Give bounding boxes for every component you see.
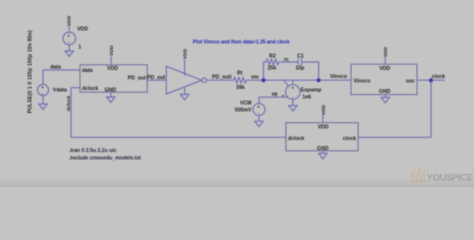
svg-text:data: data bbox=[50, 65, 61, 71]
svg-text:GND: GND bbox=[317, 146, 329, 152]
wire U3 GND stub bbox=[322, 151, 324, 154]
ground bbox=[39, 104, 47, 109]
op-amp ground stub bbox=[292, 99, 294, 105]
svg-text:1e6: 1e6 bbox=[302, 94, 311, 100]
wire U1 GND stub bbox=[110, 92, 112, 97]
svg-text:Vinvco: Vinvco bbox=[330, 74, 347, 80]
svg-text:VDD: VDD bbox=[318, 124, 329, 130]
bottom shade bbox=[0, 180, 474, 184]
wire VDD stub above V1 bbox=[68, 27, 70, 33]
svg-text:VDD: VDD bbox=[321, 105, 327, 116]
svg-text:VDD: VDD bbox=[107, 66, 118, 72]
svg-text:.include cmosedu_models.txt: .include cmosedu_models.txt bbox=[69, 156, 141, 162]
svg-text:PD_outi: PD_outi bbox=[212, 75, 232, 81]
svg-text:GND: GND bbox=[379, 89, 391, 95]
svg-text:Vdata: Vdata bbox=[53, 87, 67, 93]
op-amp output stub bbox=[292, 80, 294, 85]
svg-text:Vinvco: Vinvco bbox=[354, 78, 371, 84]
subcircuit U1 phase detector box bbox=[80, 65, 147, 92]
svg-text:Plot Vinvco and then data+1.35: Plot Vinvco and then data+1.35 and clock bbox=[193, 39, 290, 45]
watermark YouSpice icon bbox=[411, 169, 425, 182]
svg-text:VDD: VDD bbox=[182, 48, 188, 59]
svg-text:500mV: 500mV bbox=[235, 108, 252, 114]
capacitor C1 bbox=[298, 58, 301, 65]
wire Vdata to ground bbox=[42, 96, 44, 104]
wire PD_outi to resistor bbox=[207, 79, 234, 81]
subcircuit U2 VCO box bbox=[351, 64, 417, 94]
wire vm bbox=[246, 79, 351, 81]
wire VDD stub above U3 bbox=[322, 116, 324, 123]
wire inverter GND stub bbox=[184, 87, 186, 95]
svg-text:Eopamp: Eopamp bbox=[301, 87, 321, 93]
wire U2 GND stub bbox=[384, 95, 386, 98]
ground bbox=[319, 153, 327, 158]
svg-text:1: 1 bbox=[78, 45, 81, 51]
node clock junction bbox=[429, 78, 433, 82]
svg-text:vp: vp bbox=[271, 91, 277, 97]
svg-text:GND: GND bbox=[105, 87, 117, 93]
svg-text:VDD: VDD bbox=[383, 47, 389, 58]
ground bbox=[65, 51, 73, 56]
wire C1 to output bbox=[302, 62, 319, 80]
node vm junction bbox=[262, 78, 266, 82]
wire VCM to ground bbox=[258, 116, 260, 122]
svg-text:PULSE(0 1 0 100p 100p 10n 80n): PULSE(0 1 0 100p 100p 10n 80n) bbox=[27, 30, 33, 113]
wire V1 to ground bbox=[68, 45, 70, 51]
voltage source Vdata bbox=[37, 84, 48, 95]
svg-text:R2: R2 bbox=[269, 53, 276, 59]
inverter X1 bbox=[166, 66, 201, 94]
svg-text:clock: clock bbox=[343, 136, 356, 142]
wire data net bbox=[43, 70, 80, 85]
svg-text:C1: C1 bbox=[297, 53, 304, 59]
svg-text:.tran 0 2.5u 2.2u uic: .tran 0 2.5u 2.2u uic bbox=[69, 148, 117, 154]
wire vm feedback riser bbox=[264, 62, 267, 80]
wire VDD stub above U1 bbox=[110, 57, 112, 65]
ground bbox=[255, 121, 263, 126]
svg-text:10p: 10p bbox=[295, 65, 304, 71]
wire VDD stub above U2 bbox=[384, 58, 386, 64]
svg-text:PD_out: PD_out bbox=[147, 75, 165, 81]
svg-text:clock: clock bbox=[432, 74, 445, 80]
svg-text:PD_out: PD_out bbox=[128, 76, 146, 82]
ground bbox=[381, 97, 389, 102]
svg-text:25k: 25k bbox=[268, 65, 277, 71]
svg-text:dclock: dclock bbox=[82, 86, 99, 92]
svg-text:dclock: dclock bbox=[288, 136, 305, 142]
node Vinvco junction bbox=[317, 78, 321, 82]
voltage source VCM bbox=[253, 104, 265, 116]
svg-text:osc: osc bbox=[406, 78, 415, 84]
svg-text:VCM: VCM bbox=[240, 101, 252, 107]
inverter output bubble bbox=[202, 78, 207, 83]
resistor R2 bbox=[266, 59, 279, 65]
svg-text:vm: vm bbox=[251, 75, 259, 81]
voltage source V1 bbox=[63, 32, 76, 45]
svg-text:rc: rc bbox=[284, 57, 289, 63]
op-amp E1 inverting input stub bbox=[284, 80, 289, 87]
wire PD_out bbox=[147, 79, 166, 81]
svg-text:VDD: VDD bbox=[77, 27, 88, 33]
wire osc to clock bbox=[417, 79, 445, 81]
svg-text:VDD: VDD bbox=[379, 66, 390, 72]
ground bbox=[180, 94, 188, 99]
svg-text:39k: 39k bbox=[236, 85, 245, 91]
resistor Rt bbox=[234, 77, 247, 83]
svg-text:data: data bbox=[82, 68, 93, 74]
subcircuit U3 divider box bbox=[286, 123, 358, 151]
op-amp E1 body bbox=[286, 85, 301, 100]
ground bbox=[107, 97, 115, 102]
svg-text:VDD: VDD bbox=[109, 45, 115, 56]
ground bbox=[289, 106, 297, 111]
wire rc bbox=[279, 61, 298, 63]
svg-text:dclock: dclock bbox=[66, 95, 72, 111]
wire clock down to divider bbox=[358, 80, 431, 137]
wire dclock from U1 bbox=[71, 88, 286, 138]
svg-text:Rt: Rt bbox=[237, 71, 243, 77]
wire VDD stub above inverter bbox=[184, 60, 186, 76]
svg-text:VDD: VDD bbox=[67, 15, 73, 26]
wire vp input bbox=[259, 97, 288, 103]
